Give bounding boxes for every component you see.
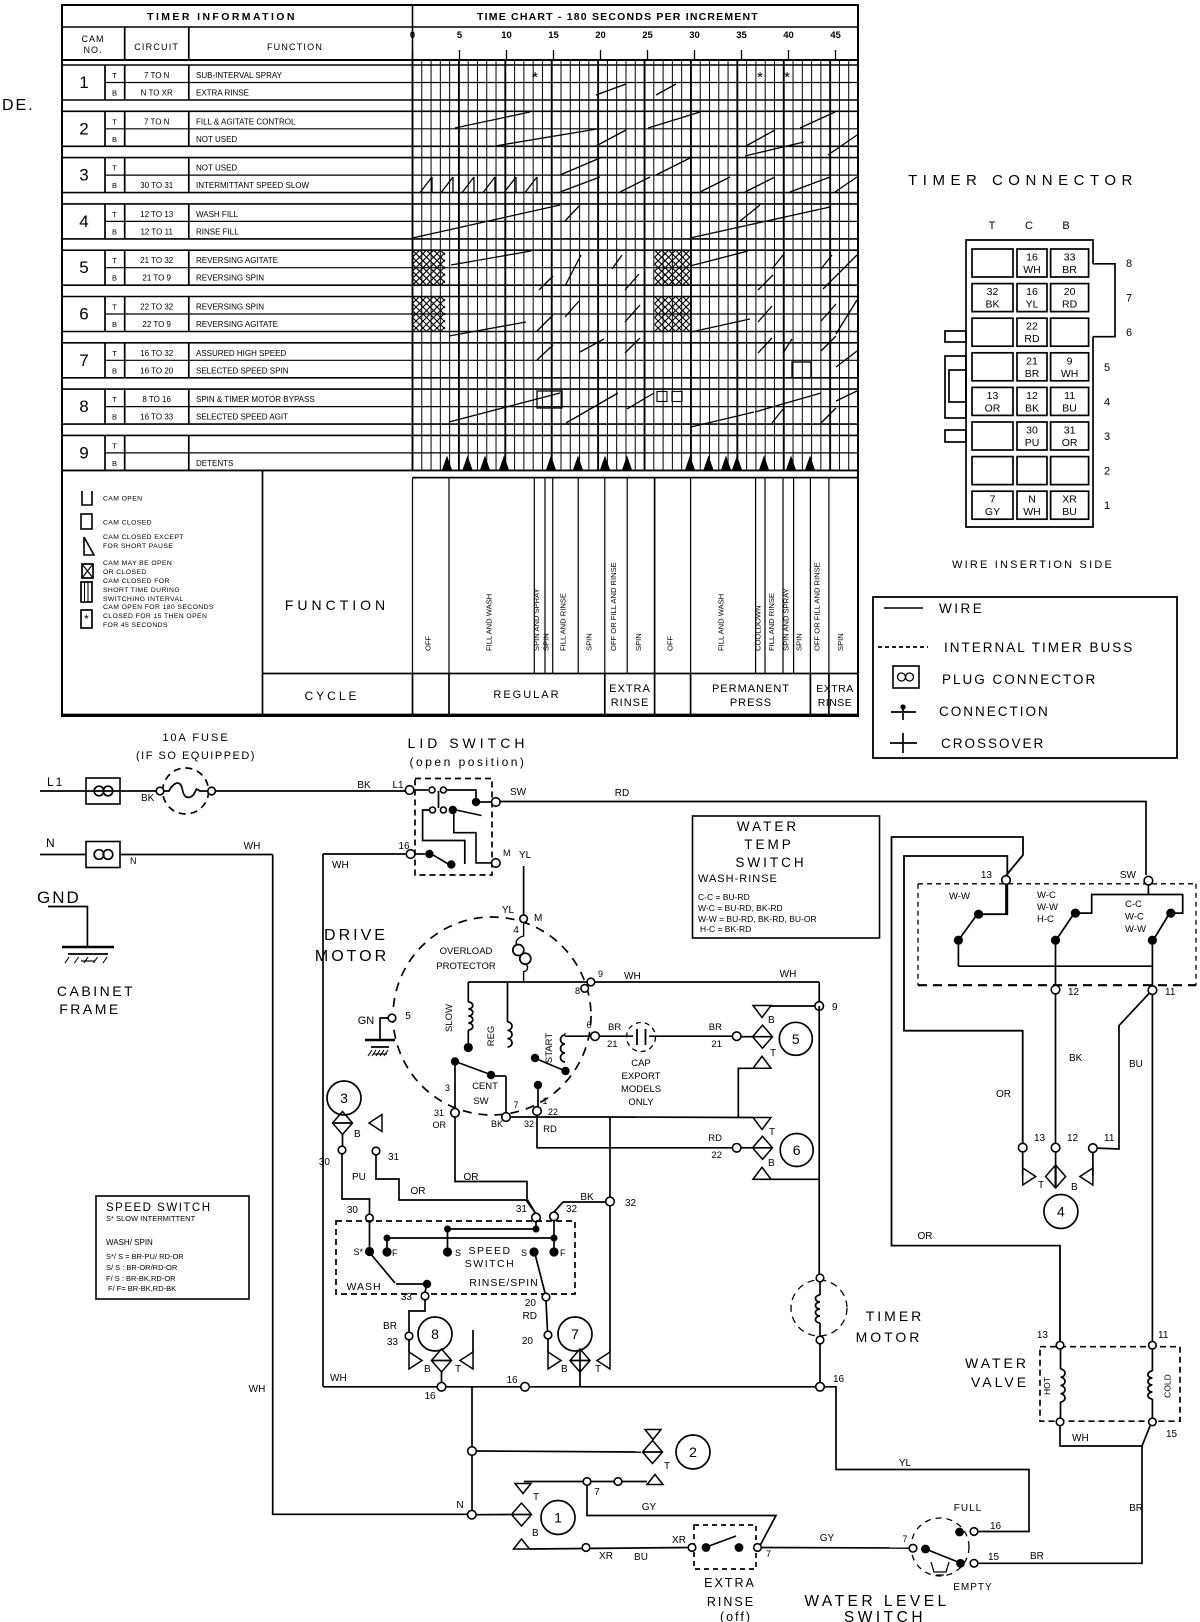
start switch contacts: [531, 1054, 563, 1117]
svg-text:32: 32: [625, 1198, 637, 1209]
svg-text:NOT USED: NOT USED: [196, 135, 237, 144]
cam row 6: [62, 297, 858, 332]
svg-text:S: S: [455, 1248, 461, 1258]
svg-text:4: 4: [513, 925, 519, 936]
svg-text:N: N: [456, 1500, 463, 1511]
svg-text:YL: YL: [1026, 299, 1039, 311]
svg-text:16 TO 20: 16 TO 20: [140, 366, 174, 375]
svg-text:RD: RD: [523, 1311, 537, 1322]
svg-text:T: T: [112, 441, 117, 450]
legend crossover symbol: [890, 733, 1045, 753]
timer connector pin row 2: [972, 457, 1110, 485]
svg-text:EXTRA RINSE: EXTRA RINSE: [196, 89, 249, 98]
svg-text:33: 33: [1064, 252, 1076, 264]
svg-text:N: N: [46, 836, 55, 850]
svg-text:XR: XR: [672, 1535, 686, 1546]
cam row 5: [62, 250, 858, 285]
svg-text:BR: BR: [1062, 264, 1077, 276]
svg-text:CIRCUIT: CIRCUIT: [134, 42, 179, 52]
svg-text:2: 2: [689, 1444, 697, 1460]
lid switch terminal M YL: [492, 848, 532, 867]
plug connector 6 T side triangle: [753, 1118, 775, 1139]
svg-text:T: T: [770, 1048, 776, 1059]
svg-text:7: 7: [1126, 293, 1132, 305]
svg-text:4: 4: [1057, 1204, 1065, 1220]
svg-text:B: B: [768, 1158, 775, 1169]
svg-text:16: 16: [424, 1391, 436, 1402]
svg-text:SPEED: SPEED: [468, 1245, 511, 1257]
svg-text:16: 16: [1026, 252, 1038, 264]
svg-text:REVERSING SPIN: REVERSING SPIN: [196, 274, 264, 283]
water temp switch W-W contact: [949, 891, 983, 945]
svg-text:21 TO 9: 21 TO 9: [142, 274, 171, 283]
svg-text:T: T: [533, 1492, 539, 1503]
time chart cam-5 and cam-6 crosshatch regions: [413, 250, 691, 331]
svg-text:13: 13: [987, 390, 999, 402]
svg-text:8: 8: [431, 1326, 439, 1342]
time chart cam transition ramps: [413, 84, 858, 427]
svg-text:WASH: WASH: [346, 1281, 381, 1293]
svg-text:B: B: [112, 459, 117, 468]
svg-text:SELECTED SPEED AGIT: SELECTED SPEED AGIT: [196, 413, 288, 422]
lid switch pole 2 contacts: [430, 806, 482, 816]
svg-text:30: 30: [1026, 425, 1038, 437]
svg-text:9: 9: [1067, 355, 1073, 367]
wire RD lid switch SW to water temp switch: [500, 788, 1146, 875]
svg-text:C: C: [1025, 220, 1033, 232]
svg-text:WH: WH: [244, 841, 261, 852]
timer connector column labels T C B: [989, 220, 1070, 232]
svg-text:PERMANENT: PERMANENT: [712, 683, 790, 695]
svg-text:16 TO 32: 16 TO 32: [140, 349, 174, 358]
svg-text:WASH-RINSE: WASH-RINSE: [698, 873, 778, 885]
water temp terminal 12: [1051, 985, 1079, 998]
svg-text:RD: RD: [615, 788, 629, 799]
svg-text:OR CLOSED: OR CLOSED: [103, 569, 147, 576]
svg-text:6: 6: [793, 1142, 801, 1158]
svg-text:INTERMITTANT SPEED SLOW: INTERMITTANT SPEED SLOW: [196, 181, 309, 190]
svg-text:MODELS: MODELS: [621, 1084, 661, 1095]
svg-text:6: 6: [79, 305, 88, 324]
svg-text:EXTRA: EXTRA: [609, 683, 651, 695]
svg-text:RD: RD: [1062, 299, 1078, 311]
wire BK 32 to plug 6 T triangle: [510, 1116, 753, 1119]
svg-text:31: 31: [388, 1152, 400, 1163]
centrifugal switch: [433, 1057, 535, 1130]
svg-text:B: B: [112, 135, 117, 144]
drive motor label: [315, 927, 389, 965]
lid switch terminal L1: [405, 786, 414, 795]
svg-text:T: T: [112, 71, 117, 80]
capacitor CAP export models only: [599, 1022, 741, 1108]
water temp switch dashed enclosure: [918, 884, 1196, 985]
plug connector 1: [512, 1484, 576, 1550]
svg-text:OR: OR: [996, 1089, 1011, 1100]
svg-text:31: 31: [516, 1204, 528, 1215]
svg-text:PROTECTOR: PROTECTOR: [436, 961, 496, 972]
svg-text:6: 6: [1126, 327, 1132, 339]
svg-text:16: 16: [506, 1375, 518, 1386]
svg-text:PLUG CONNECTOR: PLUG CONNECTOR: [942, 672, 1097, 687]
svg-text:BU: BU: [1129, 1059, 1143, 1070]
svg-text:PRESS: PRESS: [730, 697, 772, 709]
svg-text:16: 16: [990, 1521, 1002, 1532]
wire GY extra rinse to water level switch: [762, 1533, 910, 1548]
legend connection symbol: [891, 704, 1050, 720]
svg-text:WATER LEVEL: WATER LEVEL: [804, 1593, 949, 1610]
svg-text:3: 3: [79, 166, 88, 185]
svg-text:S* SLOW INTERMITTENT: S* SLOW INTERMITTENT: [106, 1214, 196, 1223]
svg-text:W-W: W-W: [1125, 924, 1146, 935]
svg-text:N TO XR: N TO XR: [141, 89, 173, 98]
svg-text:BR: BR: [383, 1321, 397, 1332]
svg-text:SW: SW: [473, 1096, 488, 1107]
svg-text:ONLY: ONLY: [628, 1097, 654, 1108]
svg-text:7: 7: [902, 1534, 907, 1544]
plug connector 4: [1023, 1152, 1093, 1229]
water valve bottom terminals: [1056, 1418, 1177, 1440]
water valve terminal 13 hot: [1037, 1330, 1064, 1349]
svg-text:L1: L1: [392, 780, 404, 791]
svg-text:CAM CLOSED EXCEPT: CAM CLOSED EXCEPT: [103, 534, 184, 541]
svg-text:W-C: W-C: [1125, 912, 1144, 923]
svg-text:20: 20: [525, 1298, 537, 1309]
svg-text:EXPORT: EXPORT: [622, 1071, 661, 1082]
water temp internal bus: [958, 940, 1152, 985]
svg-text:30: 30: [319, 1157, 331, 1168]
legend internal timer buss symbol: [878, 640, 1134, 655]
svg-text:CAM CLOSED FOR: CAM CLOSED FOR: [103, 578, 170, 585]
svg-text:F/ F= BR-BK,RD-BK: F/ F= BR-BK,RD-BK: [108, 1284, 176, 1293]
svg-text:EXTRA: EXTRA: [816, 683, 854, 695]
svg-text:N: N: [130, 856, 137, 866]
svg-text:TIMER INFORMATION: TIMER INFORMATION: [147, 11, 297, 23]
svg-text:S/ S : BR-OR/RD-OR: S/ S : BR-OR/RD-OR: [106, 1263, 178, 1272]
water temp switch middle contact W-C W-W H-C: [1037, 890, 1183, 945]
cam row 2: [62, 111, 858, 146]
plug 4 terminals 13 12 11: [1018, 1133, 1114, 1152]
svg-text:30 TO 31: 30 TO 31: [140, 181, 174, 190]
svg-text:C-C: C-C: [1125, 899, 1142, 910]
svg-text:GN: GN: [358, 1015, 375, 1027]
svg-text:NO.: NO.: [83, 45, 102, 55]
svg-text:13: 13: [981, 870, 993, 881]
cam row 3: [62, 158, 858, 193]
svg-text:BU: BU: [634, 1552, 648, 1563]
wire 16 bus along bottom of motor section: [323, 1375, 815, 1402]
svg-text:13: 13: [1037, 1330, 1049, 1341]
motor terminal 9 and 8: [575, 969, 641, 996]
svg-text:YL: YL: [899, 1458, 912, 1469]
svg-text:FOR SHORT PAUSE: FOR SHORT PAUSE: [103, 543, 173, 550]
svg-text:21: 21: [1026, 355, 1038, 367]
svg-text:T: T: [112, 303, 117, 312]
svg-text:FOR 45 SECONDS: FOR 45 SECONDS: [103, 622, 168, 629]
speed switch node 31 and 32: [516, 1204, 578, 1222]
svg-text:DETENTS: DETENTS: [196, 459, 233, 468]
svg-text:22: 22: [711, 1150, 722, 1161]
svg-text:YL: YL: [502, 905, 515, 916]
svg-text:FILL AND WASH: FILL AND WASH: [485, 594, 494, 651]
svg-text:33: 33: [401, 1292, 413, 1303]
svg-text:L1: L1: [47, 775, 64, 789]
motor ground symbol: [365, 1039, 395, 1042]
water valve label: [965, 1355, 1029, 1390]
cam 1 asterisk marks: [532, 69, 790, 402]
svg-text:S: S: [521, 1248, 527, 1258]
svg-text:COOLDOWN: COOLDOWN: [754, 605, 763, 651]
svg-text:(open position): (open position): [410, 755, 527, 769]
svg-text:15: 15: [1166, 1429, 1178, 1440]
svg-text:SWITCH: SWITCH: [465, 1258, 515, 1270]
svg-text:11: 11: [1064, 390, 1075, 402]
svg-text:SPIN: SPIN: [836, 633, 845, 651]
water valve dashed enclosure: [1040, 1347, 1180, 1422]
svg-text:FULL: FULL: [954, 1503, 982, 1514]
svg-text:S*/ S = BR-PU/ RD-OR: S*/ S = BR-PU/ RD-OR: [106, 1252, 184, 1261]
svg-text:RINSE: RINSE: [818, 697, 853, 709]
svg-text:30: 30: [689, 30, 700, 41]
svg-text:31: 31: [434, 1108, 444, 1118]
svg-text:40: 40: [783, 30, 794, 41]
ground symbol cabinet frame: [62, 946, 114, 949]
svg-text:12: 12: [1068, 987, 1080, 998]
svg-text:C-C = BU-RD: C-C = BU-RD: [698, 892, 750, 902]
svg-text:4: 4: [79, 212, 88, 231]
svg-text:7: 7: [79, 351, 88, 370]
svg-text:1: 1: [542, 1096, 547, 1106]
svg-text:7: 7: [990, 494, 996, 506]
wire YL 16 bus to water level switch full: [824, 1387, 1029, 1532]
svg-text:T: T: [769, 1127, 775, 1138]
svg-text:W-W: W-W: [949, 891, 970, 902]
svg-text:BR: BR: [1025, 368, 1040, 380]
svg-text:S*: S*: [353, 1247, 363, 1257]
svg-text:11: 11: [1104, 1133, 1115, 1144]
legend wire symbol: [884, 601, 984, 616]
svg-text:MOTOR: MOTOR: [856, 1329, 923, 1345]
svg-text:REVERSING AGITATE: REVERSING AGITATE: [196, 320, 278, 329]
wire BK 12 to plug 4: [1056, 994, 1083, 1144]
wire OR rail outer: [892, 837, 1061, 1341]
svg-text:W-C = BU-RD, BK-RD: W-C = BU-RD, BK-RD: [698, 903, 783, 913]
water temp terminal SW: [1120, 870, 1153, 895]
svg-text:16: 16: [1026, 286, 1038, 298]
svg-text:B: B: [112, 227, 117, 236]
svg-text:RD: RD: [543, 1124, 557, 1135]
node 16 timer motor junction: [816, 1374, 845, 1391]
svg-text:32: 32: [987, 286, 999, 298]
svg-text:4: 4: [1104, 396, 1110, 408]
svg-text:CENT: CENT: [472, 1081, 498, 1092]
node 9 junction: [771, 1002, 838, 1013]
svg-text:OFF OR FILL AND RINSE: OFF OR FILL AND RINSE: [813, 562, 822, 651]
svg-text:WH: WH: [1072, 1433, 1089, 1444]
timer information table frame: [62, 5, 858, 716]
svg-text:BK: BK: [985, 299, 999, 311]
svg-text:30: 30: [347, 1205, 359, 1216]
svg-text:T: T: [989, 220, 996, 232]
svg-text:B: B: [1062, 220, 1069, 232]
svg-text:7 TO N: 7 TO N: [144, 71, 170, 80]
svg-text:1: 1: [1104, 500, 1110, 512]
svg-text:WH: WH: [330, 1373, 347, 1384]
fuse 10A (if so equipped): [136, 732, 256, 814]
wire timer motor feed rail: [818, 1006, 820, 1276]
svg-text:REGULAR: REGULAR: [493, 689, 560, 701]
svg-text:START: START: [544, 1033, 555, 1063]
svg-text:21: 21: [607, 1039, 618, 1050]
svg-text:B: B: [354, 1129, 361, 1140]
svg-text:5: 5: [457, 30, 463, 41]
svg-text:INTERNAL TIMER BUSS: INTERNAL TIMER BUSS: [944, 640, 1134, 655]
svg-text:SW: SW: [510, 787, 527, 798]
svg-text:12 TO 11: 12 TO 11: [140, 227, 173, 236]
svg-text:WH: WH: [1023, 264, 1041, 276]
cam row 7: [62, 343, 858, 378]
svg-text:PU: PU: [1025, 437, 1040, 449]
svg-text:CAM: CAM: [82, 34, 105, 44]
wire WH hot valve return: [1060, 1426, 1150, 1446]
plug connector 5 diamond: [741, 1022, 813, 1055]
svg-text:F/ S : BR-BK,RD-OR: F/ S : BR-BK,RD-OR: [106, 1274, 176, 1283]
wire node 16 to pair 2 and N: [468, 1387, 641, 1510]
svg-text:(IF SO EQUIPPED): (IF SO EQUIPPED): [136, 750, 256, 762]
timer connector housing outline: [1093, 264, 1115, 337]
svg-text:WIRE: WIRE: [939, 601, 984, 616]
timer connector pin row 3: [972, 422, 1110, 450]
svg-text:22: 22: [548, 1107, 558, 1117]
wire RD 22 from start switch: [537, 1115, 741, 1161]
svg-text:13: 13: [1034, 1133, 1046, 1144]
svg-text:9: 9: [598, 969, 603, 979]
cam row 9: [62, 435, 858, 470]
hot valve coil: [1042, 1349, 1065, 1418]
svg-text:NOT USED: NOT USED: [196, 164, 237, 173]
start winding: [544, 1033, 591, 1076]
wire PU to speed switch wash S*: [342, 1154, 373, 1248]
svg-text:T: T: [112, 210, 117, 219]
wire OR inner to plug 4: [904, 856, 1023, 1144]
svg-text:B: B: [112, 181, 117, 190]
lid switch left staircase wire: [423, 810, 465, 864]
timer connector pin row 5: [972, 353, 1110, 381]
svg-text:FILL & AGITATE CONTROL: FILL & AGITATE CONTROL: [196, 117, 296, 126]
svg-text:W-W: W-W: [1037, 902, 1058, 913]
svg-text:SELECTED SPEED SPIN: SELECTED SPEED SPIN: [196, 366, 289, 375]
svg-text:9: 9: [79, 443, 88, 462]
cam row 1: [62, 65, 858, 100]
svg-text:CROSSOVER: CROSSOVER: [941, 736, 1045, 751]
motor terminal 6 BR 21: [586, 1020, 621, 1050]
svg-text:20: 20: [595, 30, 606, 41]
svg-text:T: T: [664, 1461, 670, 1472]
cold valve coil: [1148, 1349, 1173, 1418]
node N junction: [456, 1500, 511, 1519]
legend plug connector symbol: [893, 666, 1097, 688]
svg-text:WH: WH: [1061, 368, 1079, 380]
svg-text:CLOSED FOR 15 THEN OPEN: CLOSED FOR 15 THEN OPEN: [103, 613, 207, 620]
timer motor: [791, 1274, 924, 1386]
svg-text:FUNCTION: FUNCTION: [267, 42, 323, 52]
svg-text:OFF: OFF: [666, 635, 675, 651]
svg-text:T: T: [112, 164, 117, 173]
plug connector L1: [86, 778, 120, 804]
svg-text:M: M: [534, 913, 542, 924]
svg-text:XR: XR: [1062, 494, 1077, 506]
motor internal bus WH: [468, 981, 819, 983]
wire OR from cent switch 31: [455, 1117, 536, 1215]
svg-text:2: 2: [1104, 466, 1110, 478]
speed switch info box: [96, 1196, 249, 1299]
cam row 8: [62, 389, 858, 424]
svg-text:BR: BR: [1030, 1551, 1044, 1562]
svg-text:BK: BK: [357, 780, 371, 791]
svg-text:3: 3: [445, 1083, 450, 1093]
svg-text:WATER: WATER: [737, 819, 799, 834]
extra rinse switch (off): [688, 1525, 771, 1622]
svg-text:SPIN: SPIN: [634, 633, 643, 651]
svg-text:(off): (off): [720, 1610, 752, 1622]
cam 9 detent arrows: [443, 457, 815, 470]
svg-text:22: 22: [1026, 321, 1038, 333]
symbol legend box: [873, 597, 1177, 758]
svg-text:12: 12: [1026, 390, 1038, 402]
svg-text:BK: BK: [1069, 1053, 1083, 1064]
svg-text:B: B: [561, 1364, 568, 1375]
plug connector 6 B side triangle: [753, 1167, 819, 1179]
svg-text:RINSE: RINSE: [611, 697, 650, 709]
function and cycle labels: [285, 562, 854, 709]
svg-text:BK: BK: [491, 1119, 503, 1129]
wire N to plug: [40, 854, 86, 856]
overload protector: [436, 923, 531, 983]
svg-text:WH: WH: [624, 971, 641, 982]
svg-text:RINSE FILL: RINSE FILL: [196, 227, 239, 236]
svg-text:SPIN AND SPRAY: SPIN AND SPRAY: [782, 588, 791, 651]
speed switch wash contacts: [353, 1247, 461, 1292]
svg-text:FRAME: FRAME: [59, 1001, 121, 1017]
svg-text:HOT: HOT: [1042, 1377, 1052, 1395]
timer connector pin row 6: [972, 318, 1132, 346]
wire BR water valve to empty: [978, 1446, 1143, 1563]
svg-text:F: F: [560, 1248, 566, 1258]
svg-text:B: B: [532, 1528, 539, 1539]
timer connector pin row 7: [972, 284, 1132, 312]
svg-text:SLOW: SLOW: [444, 1004, 455, 1032]
svg-text:B: B: [112, 413, 117, 422]
svg-text:SWITCHING INTERVAL: SWITCHING INTERVAL: [103, 596, 184, 603]
cam legend symbols: [81, 491, 214, 629]
plug connector 3: [327, 1081, 382, 1146]
svg-text:3: 3: [1104, 431, 1110, 443]
svg-text:YL: YL: [519, 850, 532, 861]
svg-text:SPIN & TIMER MOTOR BYPASS: SPIN & TIMER MOTOR BYPASS: [196, 395, 315, 404]
wire BU 11 to plug 4: [1097, 994, 1149, 1150]
svg-text:SW: SW: [1120, 870, 1137, 881]
svg-text:H-C = BK-RD: H-C = BK-RD: [700, 924, 751, 934]
svg-text:WH: WH: [332, 860, 349, 871]
svg-text:11: 11: [1165, 987, 1176, 998]
svg-text:RD: RD: [1024, 333, 1040, 345]
svg-text:RINSE: RINSE: [707, 1595, 755, 1609]
svg-text:WASH FILL: WASH FILL: [196, 210, 238, 219]
svg-text:DE.: DE.: [2, 97, 35, 114]
svg-text:12: 12: [1067, 1133, 1079, 1144]
svg-text:25: 25: [642, 30, 653, 41]
wire GY to extra rinse: [587, 1485, 776, 1548]
wire L1 to fuse: [40, 790, 160, 792]
